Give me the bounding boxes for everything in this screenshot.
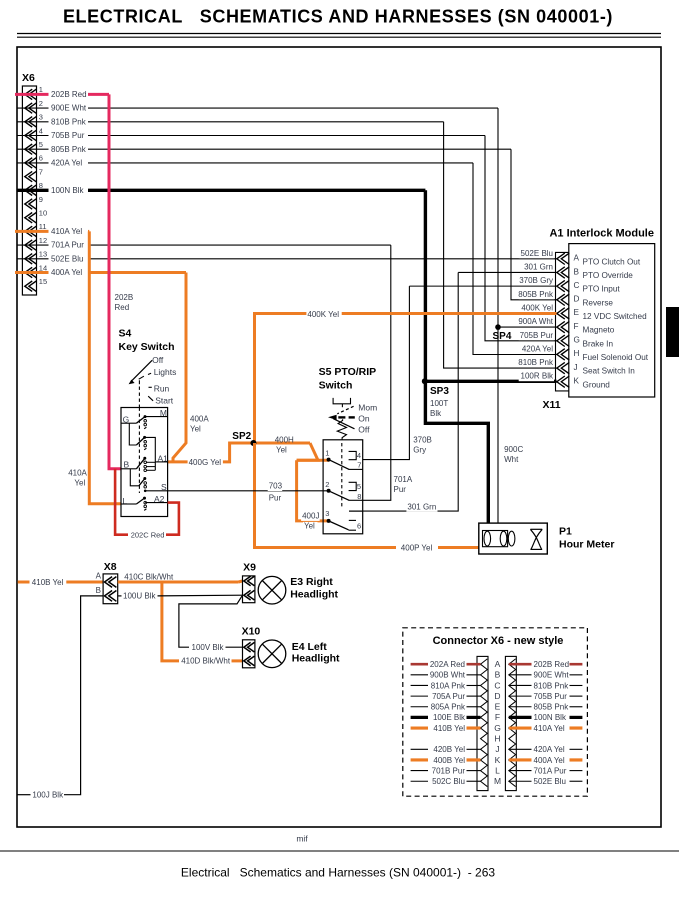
svg-text:12 VDC Switched: 12 VDC Switched: [583, 312, 648, 321]
svg-text:301 Grn: 301 Grn: [524, 262, 553, 271]
wire 410B Yel from border to X8 pin A: [18, 581, 30, 584]
svg-text:Pur: Pur: [269, 494, 282, 503]
wire 805B Pnk vertical run to pin D: [511, 149, 557, 300]
svg-text:100T: 100T: [430, 399, 448, 408]
svg-text:B: B: [124, 459, 130, 469]
connector X6 pin 3 chevron: [25, 117, 37, 127]
hour meter hourglass symbol: [530, 528, 542, 530]
switch S5 pin 5 bracket: [349, 482, 357, 490]
svg-text:A1 Interlock Module: A1 Interlock Module: [549, 228, 654, 240]
connector X6 pin 4 chevron: [25, 130, 37, 140]
wire 900E Wht vertical run to SP4: [497, 108, 499, 327]
svg-text:810B Pnk: 810B Pnk: [518, 358, 554, 367]
svg-text:Blk: Blk: [430, 409, 442, 418]
wire 900C Wht from SP4 to hour meter: [497, 327, 499, 523]
svg-text:900E Wht: 900E Wht: [51, 104, 87, 113]
svg-text:3: 3: [39, 113, 43, 122]
svg-text:502E Blu: 502E Blu: [534, 777, 566, 786]
wire 202B Red vertical run: [109, 94, 121, 468]
wire 701A Pur vertical run to S5 pin 8: [363, 245, 391, 500]
module pin H chevron: [557, 349, 570, 360]
label 400K Yel: [306, 310, 341, 319]
svg-text:Headlight: Headlight: [292, 653, 340, 665]
svg-text:2: 2: [325, 480, 329, 489]
module pin D chevron: [557, 294, 570, 305]
svg-text:B: B: [495, 670, 501, 680]
wire 100N Blk right stub: [509, 716, 532, 719]
svg-text:PTO Override: PTO Override: [583, 271, 634, 280]
wire 705B Pur vertical run to pin G: [485, 136, 557, 341]
connector X6 pin 2 chevron: [25, 103, 37, 113]
connector X6 new style left shell zigzag: [481, 659, 488, 787]
svg-text:A: A: [495, 659, 501, 669]
switch S5 selector spring: [337, 419, 346, 440]
svg-text:805B Pnk: 805B Pnk: [51, 145, 87, 154]
svg-text:202B Red: 202B Red: [534, 660, 570, 669]
svg-text:PTO Clutch Out: PTO Clutch Out: [583, 257, 641, 266]
svg-text:Magneto: Magneto: [583, 326, 615, 335]
svg-text:705B Pur: 705B Pur: [51, 131, 85, 140]
label 810B Pnk at module pin J: [519, 359, 554, 368]
svg-text:705A Pur: 705A Pur: [432, 692, 465, 701]
svg-text:Gry: Gry: [413, 446, 426, 455]
wire 420A Yel stub at X6 pin 6: [17, 162, 48, 164]
wire 100R Blk from SP3 to module pin K: [425, 380, 556, 383]
svg-text:400P Yel: 400P Yel: [401, 543, 433, 552]
svg-text:400A Yel: 400A Yel: [51, 268, 82, 277]
label 400J Yel: [301, 512, 320, 521]
svg-text:7: 7: [39, 167, 43, 176]
svg-text:Yel: Yel: [190, 425, 201, 434]
label 420A Yel at module pin H: [519, 345, 554, 354]
svg-text:Brake In: Brake In: [583, 339, 614, 348]
wire 400A Yel right stub: [509, 758, 532, 761]
connector X11 bracket: [556, 252, 569, 391]
wire 202A Red left stub: [411, 663, 428, 666]
svg-text:410A Yel: 410A Yel: [534, 724, 565, 733]
wire 100E Blk left stub: [411, 716, 428, 719]
svg-text:Off: Off: [358, 425, 370, 435]
svg-text:X9: X9: [243, 561, 256, 573]
wire 410D Blk/Wht branch: [162, 582, 179, 661]
svg-text:12: 12: [39, 236, 47, 245]
svg-text:E: E: [495, 702, 501, 712]
connector X6 pin 7 chevron: [25, 171, 37, 181]
svg-text:SP2: SP2: [232, 431, 251, 442]
wire 400B Yel left stub: [411, 758, 428, 761]
key switch internal link contact2 to A1: [145, 437, 156, 470]
svg-text:A: A: [574, 254, 580, 263]
svg-text:701A Pur: 701A Pur: [51, 241, 84, 250]
svg-text:1: 1: [39, 85, 43, 94]
wire 100N Blk vertical run to SP3: [424, 190, 427, 381]
connector X6 pin 14 chevron: [25, 267, 37, 277]
svg-text:mif: mif: [296, 834, 308, 844]
wire 400K Yel from SP2 riser to module pin E: [255, 314, 557, 444]
svg-text:D: D: [494, 691, 500, 701]
key switch contact 4: [139, 479, 145, 486]
svg-text:SP3: SP3: [430, 386, 449, 397]
wire 400A Yel stub at X6 pin 14: [15, 271, 49, 274]
key switch contact B: [136, 458, 144, 469]
key switch S4 body: [121, 408, 168, 517]
connector X6 new style right shell: [505, 656, 516, 790]
svg-text:100J Blk: 100J Blk: [32, 791, 64, 800]
wire 705A Pur left stub: [411, 695, 428, 697]
svg-text:F: F: [495, 712, 500, 722]
wire 805B Pnk from X6 pin 5: [88, 148, 511, 150]
wire 701A Pur right stub: [509, 770, 532, 772]
svg-text:M: M: [494, 776, 501, 786]
svg-text:100N Blk: 100N Blk: [51, 186, 84, 195]
wire 410A Yel vertical run to key switch L: [89, 231, 121, 503]
svg-text:502C Blu: 502C Blu: [432, 777, 465, 786]
wire 202B Red from X6 pin 1: [88, 93, 109, 96]
svg-text:100R Blk: 100R Blk: [521, 372, 554, 381]
module pin K chevron: [557, 376, 570, 387]
svg-text:J: J: [495, 744, 499, 754]
connector X6 new style left shell: [477, 656, 488, 790]
connector X10 pin 1 chevron: [244, 642, 255, 652]
svg-text:420B Yel: 420B Yel: [433, 745, 465, 754]
switch S5 contact 3: [329, 521, 349, 530]
svg-text:Switch: Switch: [319, 380, 353, 392]
svg-text:Key Switch: Key Switch: [119, 341, 175, 353]
wire 301 Grn vertical to S5: [349, 272, 458, 511]
svg-text:Yel: Yel: [276, 446, 287, 455]
wire 420A Yel vertical run to pin H: [473, 163, 557, 355]
wire 400J Yel to S5 pin 3: [297, 460, 329, 521]
wire 202C Red loop: [166, 503, 179, 535]
svg-text:F: F: [574, 322, 579, 331]
svg-text:E3 Right: E3 Right: [290, 576, 333, 588]
wire 100V Blk branch from X9 pin 2: [179, 595, 243, 647]
svg-text:G: G: [494, 723, 501, 733]
svg-text:Yel: Yel: [304, 522, 315, 531]
wire 810B Pnk from X6 pin 3: [88, 121, 444, 123]
svg-text:400G Yel: 400G Yel: [189, 458, 222, 467]
module pin A chevron: [557, 253, 570, 264]
label 301 Grn at module pin B: [523, 263, 554, 272]
module A1 body: [569, 244, 655, 397]
svg-text:E4 Left: E4 Left: [292, 641, 328, 653]
connector X6 new style dashed box: [403, 628, 588, 796]
wire 701B Pur left stub: [411, 770, 428, 772]
svg-text:Connector X6 - new style: Connector X6 - new style: [433, 635, 564, 647]
svg-text:B: B: [96, 586, 101, 595]
svg-text:Hour Meter: Hour Meter: [559, 539, 614, 551]
svg-text:100U Blk: 100U Blk: [123, 592, 156, 601]
wire 810A Pnk left stub: [411, 684, 428, 686]
wire 810B Pnk vertical run to pin J: [444, 122, 557, 368]
connector X6 pin 9 chevron: [25, 199, 37, 209]
connector X9 body: [243, 576, 255, 603]
wire 900E Wht from X6 pin 2: [88, 107, 498, 109]
svg-text:11: 11: [39, 222, 47, 231]
wire 810B Pnk right stub: [509, 684, 532, 686]
svg-text:900C: 900C: [504, 445, 523, 454]
svg-text:6: 6: [357, 521, 361, 530]
svg-text:202B: 202B: [115, 293, 134, 302]
svg-text:Yel: Yel: [74, 479, 85, 488]
hour meter register: [483, 531, 508, 547]
wire 410C Blk/Wht from X8 to X9: [118, 581, 239, 584]
wire 502E Blu right stub: [509, 780, 532, 782]
wire 420A Yel from X6 pin 6: [88, 162, 473, 164]
svg-text:805B Pnk: 805B Pnk: [534, 703, 570, 712]
key switch contact L: [136, 498, 144, 504]
wire 900A Wht from SP4 to module pin F: [498, 326, 557, 328]
switch S5 internal dashed axis: [341, 443, 343, 508]
svg-text:5: 5: [39, 140, 43, 149]
svg-text:J: J: [574, 363, 578, 372]
switch S5 contact 2: [329, 491, 350, 501]
svg-text:X6: X6: [22, 72, 35, 84]
wire 805B Pnk right stub: [509, 706, 532, 708]
svg-text:X8: X8: [104, 561, 117, 573]
svg-text:5: 5: [357, 482, 361, 491]
svg-text:K: K: [495, 755, 501, 765]
svg-text:420A Yel: 420A Yel: [534, 745, 565, 754]
splice SP2: [250, 440, 256, 446]
svg-text:Run: Run: [154, 384, 170, 394]
svg-text:Off: Off: [152, 355, 164, 365]
svg-text:2: 2: [39, 99, 43, 108]
svg-text:Fuel Solenoid Out: Fuel Solenoid Out: [583, 353, 649, 362]
wire 703 Pur from key switch S to S5 pin 2: [168, 490, 329, 492]
wire 900E Wht stub at X6 pin 2: [17, 107, 48, 109]
key switch contact G-M: [136, 417, 145, 424]
svg-text:805A Pnk: 805A Pnk: [431, 703, 466, 712]
connector X6 pin 1 chevron: [25, 89, 37, 99]
svg-text:703: 703: [269, 482, 283, 491]
connector X6 pin 8 chevron: [25, 185, 37, 195]
svg-text:H: H: [494, 733, 500, 743]
wire 100T Blk from SP3 to hour meter: [425, 381, 488, 523]
key switch selector shaft dashed: [138, 387, 140, 408]
svg-text:420A Yel: 420A Yel: [51, 159, 82, 168]
svg-text:810B Pnk: 810B Pnk: [51, 117, 87, 126]
switch S5 selector bracket: [333, 398, 350, 404]
connector X6 body: [22, 86, 36, 295]
switch S5 body: [323, 440, 363, 534]
wire 410A Yel right stub: [509, 726, 532, 729]
svg-text:Headlight: Headlight: [290, 589, 338, 601]
svg-text:4: 4: [39, 126, 43, 135]
label 400K Yel at module pin E: [519, 304, 554, 313]
connector X9 pin 2 chevron: [244, 590, 255, 600]
svg-text:E: E: [574, 308, 580, 317]
label 703 Pur: [268, 482, 283, 491]
svg-text:502E Blu: 502E Blu: [51, 254, 83, 263]
wire 805B Pnk stub at X6 pin 5: [17, 148, 48, 150]
module pin C chevron: [557, 280, 570, 291]
svg-text:8: 8: [357, 492, 361, 501]
connector X9 pin 1 chevron: [244, 576, 255, 586]
svg-text:H: H: [574, 349, 580, 358]
connector X6 pin 15 chevron: [25, 281, 37, 291]
wire 400G Yel from key switch A1 to SP2: [168, 443, 310, 462]
svg-text:701A: 701A: [394, 475, 413, 484]
svg-text:14: 14: [39, 263, 47, 272]
key switch internal dashed axis: [138, 408, 140, 494]
svg-text:P1: P1: [559, 526, 572, 538]
wire 705B Pur from X6 pin 4: [88, 135, 485, 137]
svg-text:701B Pur: 701B Pur: [432, 766, 466, 775]
connector X6 pin 10 chevron: [25, 213, 37, 223]
wire 400A Yel vertical run to key switch A1: [173, 273, 186, 462]
label 705B Pur at module pin G: [519, 331, 554, 340]
right edge page tab: [666, 307, 679, 357]
wire 100U Blk from X8 pin B to X9 pin 2: [118, 595, 122, 597]
svg-text:4: 4: [357, 451, 361, 460]
wire 900B Wht left stub: [411, 674, 428, 676]
connector X10 pin 2 chevron: [244, 656, 255, 666]
svg-text:805B Pnk: 805B Pnk: [518, 290, 554, 299]
wire 410A Yel from X6 pin 11: [88, 230, 89, 233]
wire 502E Blu from X6 pin 13: [88, 258, 557, 260]
svg-text:9: 9: [39, 195, 43, 204]
svg-text:705B Pur: 705B Pur: [534, 692, 568, 701]
svg-text:410D Blk/Wht: 410D Blk/Wht: [181, 656, 231, 665]
svg-text:X10: X10: [242, 625, 261, 637]
svg-text:400K Yel: 400K Yel: [521, 303, 553, 312]
key switch contact 2: [136, 437, 144, 445]
wire 202B Red right stub: [509, 663, 532, 666]
wire 202B Red stub at X6 pin 1: [15, 93, 49, 96]
module pin B chevron: [557, 267, 570, 278]
svg-text:L: L: [495, 765, 500, 775]
svg-text:K: K: [574, 377, 580, 386]
label 400G Yel: [188, 458, 223, 467]
svg-text:Ground: Ground: [583, 380, 611, 389]
switch S5 pin 6 terminals: [349, 519, 356, 521]
connector X6 new style right shell zigzag: [509, 659, 516, 787]
svg-text:PTO Input: PTO Input: [583, 285, 621, 294]
wire 410A Yel stub at X6 pin 11: [15, 230, 49, 233]
module pin G chevron: [557, 335, 570, 346]
svg-text:A: A: [96, 572, 102, 581]
svg-text:900A Wht: 900A Wht: [518, 317, 553, 326]
svg-text:X11: X11: [543, 399, 561, 411]
label 301 Grn at S5: [406, 503, 437, 512]
wire 100N Blk from X6 pin 8: [88, 189, 425, 192]
wire 805A Pnk left stub: [411, 706, 428, 708]
svg-text:10: 10: [39, 209, 47, 218]
svg-text:Pur: Pur: [394, 485, 407, 494]
connector X6 pin 6 chevron: [25, 158, 37, 168]
wire 810B Pnk stub at X6 pin 3: [17, 121, 48, 123]
svg-text:810B Pnk: 810B Pnk: [534, 681, 570, 690]
label 370B Gry at module pin C: [519, 277, 554, 286]
module pin F chevron: [557, 321, 570, 332]
svg-text:202A Red: 202A Red: [430, 660, 465, 669]
svg-text:502E Blu: 502E Blu: [521, 249, 553, 258]
module pin J chevron: [557, 362, 570, 373]
wire 370B Gry module pin C run: [409, 285, 556, 287]
svg-text:Lights: Lights: [154, 367, 177, 377]
wire 701A Pur from X6 pin 12: [88, 244, 391, 246]
svg-text:410A Yel: 410A Yel: [51, 227, 82, 236]
wire 400P Yel from SP2 riser to hour meter: [255, 443, 397, 548]
wire 502E Blu stub at X6 pin 13: [17, 258, 48, 260]
wire 400A Yel from X6 pin 14: [88, 271, 186, 274]
svg-text:On: On: [358, 413, 370, 423]
switch S5 pin 7 terminal: [349, 468, 363, 470]
label 900A Wht at module pin F: [519, 318, 554, 327]
wire 420A Yel right stub: [509, 748, 532, 750]
connector X6 pin 5 chevron: [25, 144, 37, 154]
svg-text:705B Pur: 705B Pur: [520, 331, 554, 340]
module pin E chevron: [557, 308, 570, 319]
switch S5 301 Grn terminal: [349, 510, 363, 512]
label 100R Blk at module pin K: [519, 372, 554, 381]
hour meter P1 body: [479, 523, 548, 554]
connector X6 pin 13 chevron: [25, 254, 37, 264]
svg-text:Red: Red: [115, 303, 130, 312]
svg-text:Start: Start: [155, 395, 174, 405]
svg-text:410A: 410A: [68, 468, 87, 477]
svg-text:202B Red: 202B Red: [51, 90, 87, 99]
svg-text:202C Red: 202C Red: [131, 531, 165, 540]
splice SP4: [495, 324, 501, 330]
svg-text:301 Grn: 301 Grn: [407, 502, 436, 511]
svg-text:701A Pur: 701A Pur: [534, 766, 567, 775]
wire 705B Pur right stub: [509, 695, 532, 697]
svg-text:410B Yel: 410B Yel: [32, 578, 64, 587]
switch S5 contact 1: [329, 460, 350, 470]
svg-text:100V Blk: 100V Blk: [192, 643, 225, 652]
key switch internal link G to contact2: [129, 423, 136, 445]
svg-text:Wht: Wht: [504, 455, 519, 464]
svg-text:C: C: [574, 281, 580, 290]
svg-text:SP4: SP4: [493, 331, 512, 342]
wire 400H Yel from SP2 to S5 pin 1: [297, 443, 318, 460]
svg-text:370B Gry: 370B Gry: [519, 276, 553, 285]
svg-text:S5 PTO/RIP: S5 PTO/RIP: [319, 366, 377, 378]
svg-text:370B: 370B: [413, 436, 432, 445]
svg-text:Reverse: Reverse: [583, 298, 614, 307]
wire 410B Yel left stub: [411, 726, 428, 729]
svg-text:400J: 400J: [302, 512, 319, 521]
connector X6 pin 12 chevron: [25, 240, 37, 250]
label 805B Pnk at module pin D: [519, 290, 554, 299]
svg-text:6: 6: [39, 154, 43, 163]
connector X8 body: [103, 574, 118, 604]
wire 100N Blk stub at X6 pin 8: [17, 189, 48, 192]
svg-text:G: G: [574, 336, 580, 345]
svg-text:C: C: [494, 680, 500, 690]
svg-text:900E Wht: 900E Wht: [534, 671, 570, 680]
lamp E4 left headlight: [258, 640, 286, 668]
svg-text:400B Yel: 400B Yel: [433, 756, 465, 765]
connector X10 body: [243, 640, 255, 668]
svg-text:420A Yel: 420A Yel: [522, 344, 553, 353]
svg-text:Mom: Mom: [358, 403, 377, 413]
svg-text:7: 7: [357, 460, 361, 469]
switch S5 pin 8 terminal: [349, 499, 363, 501]
svg-text:100E Blk: 100E Blk: [433, 713, 466, 722]
wire 370B Gry vertical to S5: [363, 286, 409, 459]
svg-text:Electrical Schematics and Ha: Electrical Schematics and Harnesses (SN …: [181, 866, 495, 880]
svg-text:ELECTRICAL SCHEMATICS AND HA: ELECTRICAL SCHEMATICS AND HARNESSES (SN …: [63, 7, 613, 27]
svg-text:400A Yel: 400A Yel: [534, 756, 565, 765]
svg-text:D: D: [574, 295, 580, 304]
wire 705B Pur stub at X6 pin 4: [17, 135, 48, 137]
wire 100U Blk left run to 100J Blk: [64, 596, 103, 795]
wire 701A Pur stub at X6 pin 12: [17, 244, 48, 246]
svg-text:400A: 400A: [190, 415, 209, 424]
